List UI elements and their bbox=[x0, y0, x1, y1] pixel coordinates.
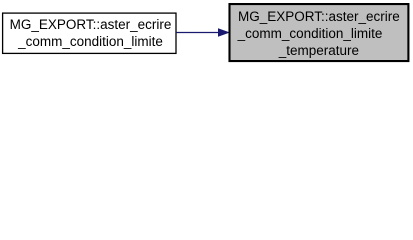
call edge arrow bbox=[177, 29, 229, 36]
svg-text:_comm_condition_limite: _comm_condition_limite bbox=[237, 26, 383, 41]
node box MG_EXPORT::aster_ecrire_comm_condition_limite_temperature (current, grey) bbox=[230, 4, 409, 61]
svg-text:_comm_condition_limite: _comm_condition_limite bbox=[17, 34, 163, 49]
svg-text:MG_EXPORT::aster_ecrire: MG_EXPORT::aster_ecrire bbox=[10, 17, 172, 32]
svg-text:_temperature: _temperature bbox=[278, 43, 359, 58]
node box MG_EXPORT::aster_ecrire_comm_condition_limite bbox=[3, 13, 176, 53]
svg-text:MG_EXPORT::aster_ecrire: MG_EXPORT::aster_ecrire bbox=[238, 9, 400, 24]
